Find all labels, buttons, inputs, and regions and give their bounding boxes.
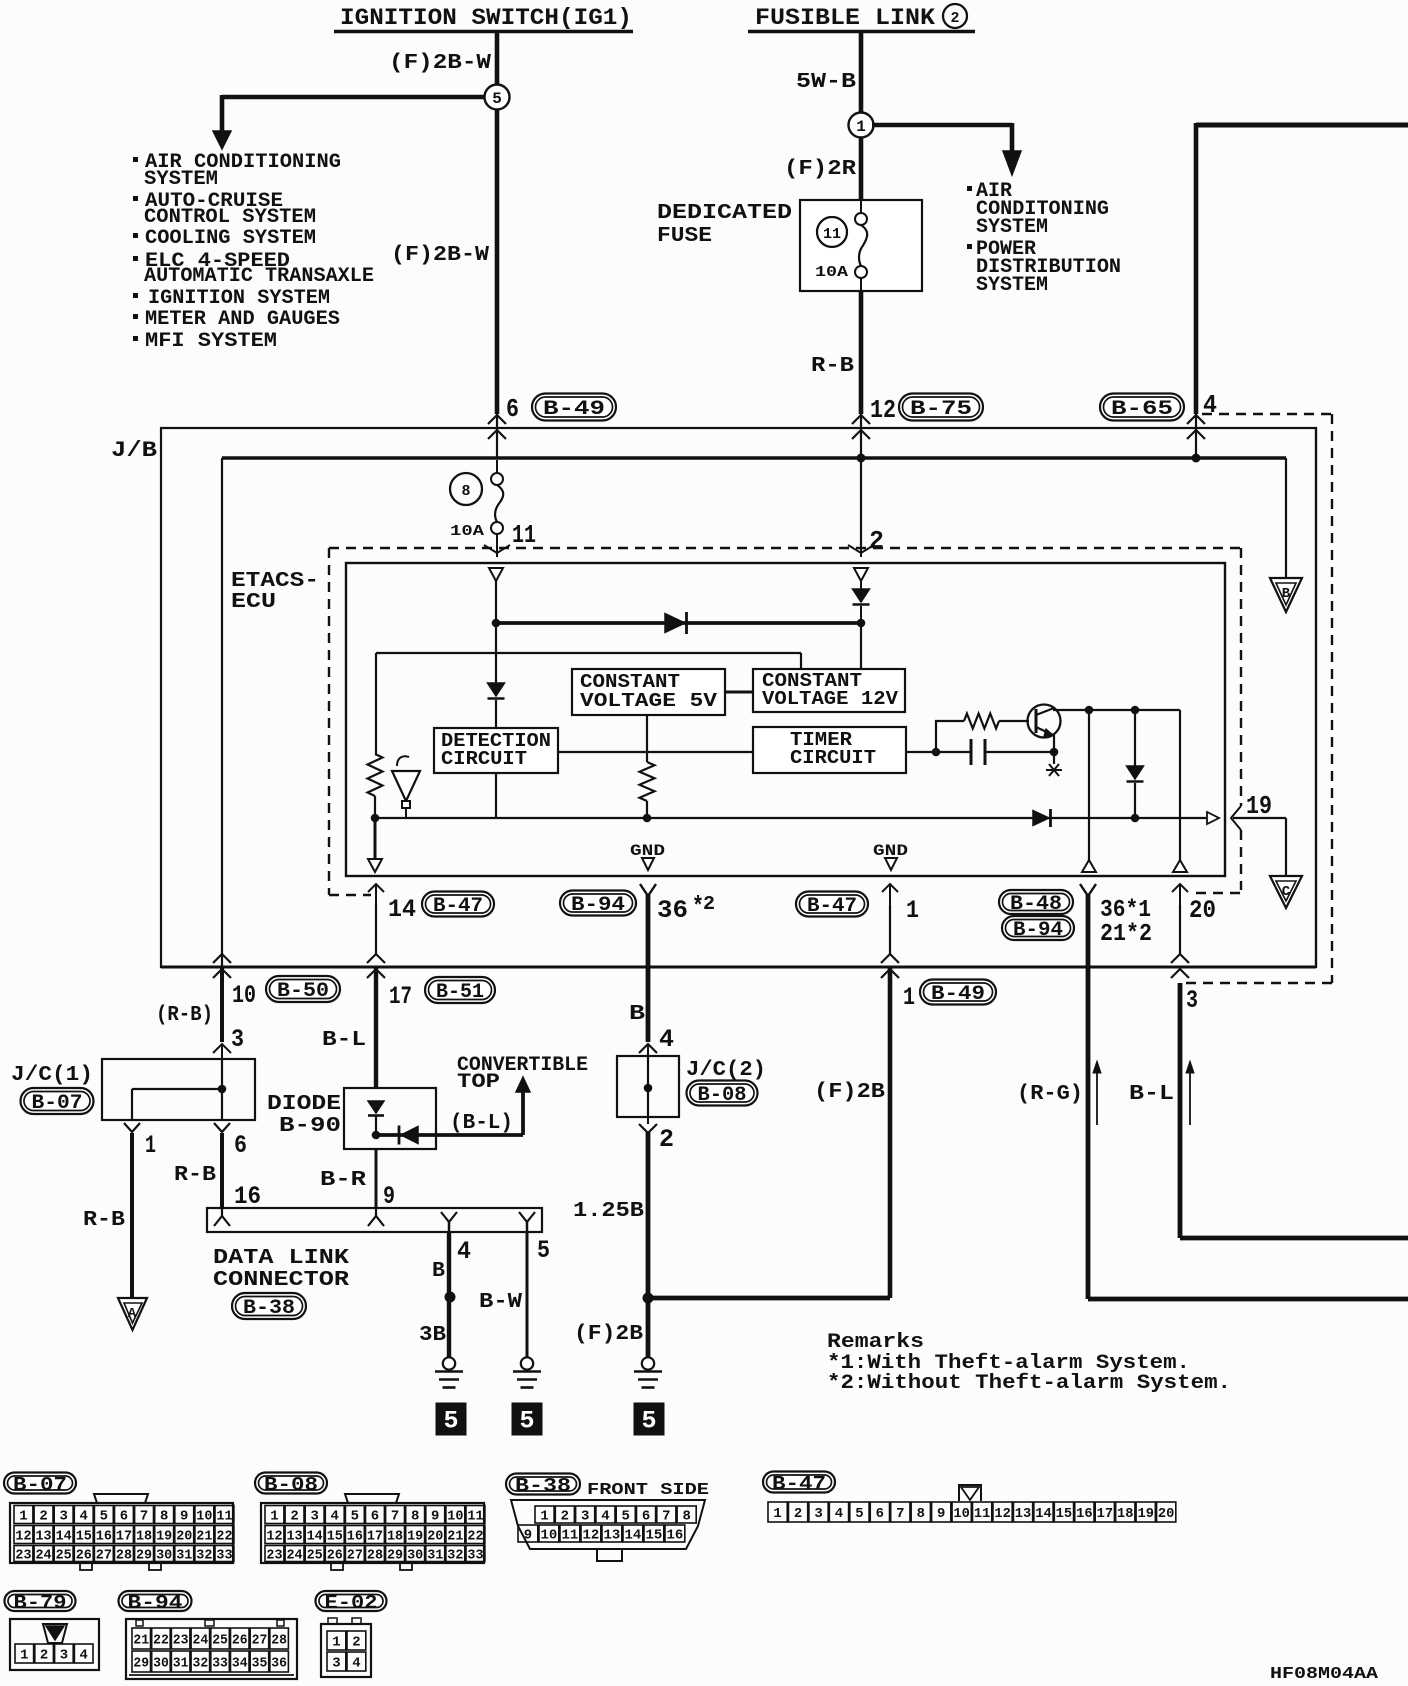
svg-text:2: 2 xyxy=(950,10,959,27)
wire jc2 entry xyxy=(639,1044,657,1053)
svg-text:25: 25 xyxy=(56,1548,72,1563)
svg-text:23: 23 xyxy=(15,1548,31,1563)
internal ground bus wire xyxy=(375,817,1218,819)
junction dot n4 xyxy=(643,814,652,823)
svg-text:J/B: J/B xyxy=(111,438,157,463)
svg-text:19: 19 xyxy=(1138,1507,1154,1522)
svg-text:13: 13 xyxy=(604,1528,621,1543)
diode D2 rightward xyxy=(665,614,685,633)
junction dot bus-4 xyxy=(1192,454,1201,463)
passthrough pin12 into J/B xyxy=(860,414,862,458)
bubble B-51 xyxy=(425,977,495,1003)
svg-text:21: 21 xyxy=(447,1529,463,1544)
svg-text:27: 27 xyxy=(96,1548,112,1563)
bubble B-48 xyxy=(999,890,1073,914)
svg-text:13: 13 xyxy=(287,1529,303,1544)
svg-text:14: 14 xyxy=(56,1529,72,1544)
svg-text:B-47: B-47 xyxy=(807,895,857,918)
svg-text:B-48: B-48 xyxy=(1010,893,1062,916)
bubble B-47 pin14 xyxy=(422,892,494,917)
svg-text:36: 36 xyxy=(657,896,688,925)
svg-text:2: 2 xyxy=(40,1648,48,1663)
CONSTANT VOLTAGE 12V box xyxy=(753,669,905,712)
pin 1 jc1 wire xyxy=(124,1123,140,1132)
J/C(1) box xyxy=(102,1059,255,1120)
svg-text:5: 5 xyxy=(537,1236,550,1265)
svg-text:20: 20 xyxy=(1158,1507,1174,1522)
svg-text:7: 7 xyxy=(896,1507,904,1522)
transistor Q1 xyxy=(1028,705,1061,738)
svg-text:B-90: B-90 xyxy=(279,1115,341,1138)
svg-text:B-49: B-49 xyxy=(931,983,985,1006)
svg-text:DATA LINK: DATA LINK xyxy=(213,1247,349,1270)
svg-text:(F)2R: (F)2R xyxy=(784,158,856,181)
svg-text:36: 36 xyxy=(271,1656,287,1671)
svg-text:24: 24 xyxy=(193,1633,209,1648)
svg-text:17: 17 xyxy=(1097,1507,1113,1522)
svg-text:10: 10 xyxy=(447,1509,463,1524)
svg-text:11: 11 xyxy=(512,520,536,550)
wire dlc4 to ground xyxy=(447,1232,451,1357)
svg-text:B-75: B-75 xyxy=(910,398,972,421)
svg-text:18: 18 xyxy=(387,1529,403,1544)
DLC pin16 entry xyxy=(221,1208,223,1216)
svg-text:B-94: B-94 xyxy=(571,894,625,917)
svg-text:1: 1 xyxy=(145,1131,156,1160)
svg-text:32: 32 xyxy=(196,1548,212,1563)
connector B-08 pinout xyxy=(255,1473,327,1494)
svg-text:36*1: 36*1 xyxy=(1100,897,1151,924)
wire to base resistor xyxy=(936,721,964,752)
junction dot n6 xyxy=(932,748,941,757)
svg-text:CONTROL SYSTEM: CONTROL SYSTEM xyxy=(144,206,316,229)
wire right feed horizontal xyxy=(1196,123,1408,128)
svg-text:(B-L): (B-L) xyxy=(450,1112,513,1135)
svg-text:30: 30 xyxy=(156,1548,172,1563)
svg-text:8: 8 xyxy=(682,1509,690,1524)
svg-text:31: 31 xyxy=(176,1548,192,1563)
svg-text:29: 29 xyxy=(136,1548,152,1563)
diode D4 xyxy=(1134,710,1136,766)
bubble B-07 label xyxy=(21,1088,94,1114)
svg-text:3: 3 xyxy=(231,1025,244,1054)
svg-text:5: 5 xyxy=(351,1509,359,1524)
input triangle pin2 xyxy=(854,568,868,581)
resistor R2 xyxy=(640,762,655,801)
svg-text:10A: 10A xyxy=(815,264,848,281)
svg-text:33: 33 xyxy=(467,1548,483,1563)
junction dot n3 xyxy=(371,814,380,823)
svg-text:E-02: E-02 xyxy=(325,1592,378,1614)
wire jc2 exit xyxy=(639,1124,657,1133)
resistor R1 xyxy=(368,754,383,796)
pin 20 wire xyxy=(1179,884,1181,906)
svg-text:TOP: TOP xyxy=(457,1071,500,1094)
wire n1-n2 with diode xyxy=(496,621,861,625)
pin 17 wire xyxy=(374,967,378,1088)
svg-text:R-B: R-B xyxy=(811,355,854,378)
svg-text:16: 16 xyxy=(96,1529,112,1544)
svg-text:R-B: R-B xyxy=(174,1164,216,1187)
emitter wire xyxy=(1053,735,1055,752)
svg-text:22: 22 xyxy=(216,1529,232,1544)
svg-text:CIRCUIT: CIRCUIT xyxy=(441,748,527,770)
direction arrow R-G xyxy=(1096,1070,1098,1125)
junction dot jc1 xyxy=(218,1085,227,1094)
ECU internal box xyxy=(346,563,1225,876)
svg-text:B-49: B-49 xyxy=(543,398,605,421)
svg-text:(R-B): (R-B) xyxy=(156,1004,213,1027)
wire timer right xyxy=(906,751,936,753)
svg-text:22: 22 xyxy=(467,1529,483,1544)
svg-text:4: 4 xyxy=(80,1509,88,1524)
fuse 8 in J/B xyxy=(496,460,498,473)
svg-text:2: 2 xyxy=(39,1509,47,1524)
svg-text:14: 14 xyxy=(625,1528,642,1543)
junction dot n9 xyxy=(1131,706,1140,715)
svg-text:35: 35 xyxy=(252,1656,268,1671)
link 5V-12V xyxy=(725,691,753,694)
svg-text:B-50: B-50 xyxy=(277,980,329,1003)
svg-text:VOLTAGE 12V: VOLTAGE 12V xyxy=(762,688,898,710)
pin 1 wire xyxy=(889,884,891,906)
svg-text:5: 5 xyxy=(855,1507,863,1522)
svg-text:6: 6 xyxy=(120,1509,128,1524)
svg-text:B-94: B-94 xyxy=(128,1592,183,1614)
triangle C xyxy=(1270,876,1302,908)
bubble B-50 xyxy=(266,976,340,1002)
svg-text:B-R: B-R xyxy=(320,1169,366,1192)
J/B right edge xyxy=(1315,428,1317,967)
svg-text:27: 27 xyxy=(347,1548,363,1563)
TIMER CIRCUIT box xyxy=(753,727,906,773)
pin 14 wire xyxy=(375,884,377,906)
svg-text:26: 26 xyxy=(76,1548,92,1563)
diode D5 down xyxy=(368,1101,384,1113)
direction arrow B-L xyxy=(1189,1070,1191,1125)
svg-text:3: 3 xyxy=(60,1648,68,1663)
wire right feed vertical xyxy=(1194,123,1199,414)
svg-text:9: 9 xyxy=(383,1182,395,1211)
svg-text:21*2: 21*2 xyxy=(1100,921,1152,948)
svg-text:25: 25 xyxy=(307,1548,323,1563)
joint 1 xyxy=(849,113,874,138)
ground ref 5 box2 xyxy=(512,1403,543,1436)
svg-text:VOLTAGE 5V: VOLTAGE 5V xyxy=(580,690,717,712)
svg-text:SYSTEM: SYSTEM xyxy=(144,168,218,191)
svg-text:16: 16 xyxy=(347,1529,363,1544)
svg-text:7: 7 xyxy=(391,1509,399,1524)
svg-text:DIODE: DIODE xyxy=(267,1093,341,1116)
ground ref 5 box3 xyxy=(634,1403,665,1436)
connector B-94 pinout xyxy=(119,1591,192,1611)
svg-text:AUTOMATIC TRANSAXLE: AUTOMATIC TRANSAXLE xyxy=(144,265,374,288)
svg-text:B-W: B-W xyxy=(479,1291,522,1314)
svg-text:23: 23 xyxy=(173,1633,189,1648)
ground g3 xyxy=(642,1357,654,1369)
svg-text:29: 29 xyxy=(133,1656,149,1671)
input triangle pin11 xyxy=(489,568,503,581)
svg-text:1: 1 xyxy=(332,1635,340,1650)
wire to pin20 output xyxy=(1179,710,1181,860)
svg-text:12: 12 xyxy=(15,1529,31,1544)
passthrough pin4 into J/B xyxy=(1195,414,1197,458)
junction dot jc2g xyxy=(643,1293,654,1304)
svg-text:2: 2 xyxy=(659,1125,674,1154)
svg-text:DEDICATED: DEDICATED xyxy=(657,202,792,225)
AC / power distribution list xyxy=(967,186,972,191)
svg-text:10: 10 xyxy=(232,981,256,1010)
output triangle pin20 xyxy=(1173,860,1187,872)
svg-text:11: 11 xyxy=(974,1507,990,1522)
svg-text:19: 19 xyxy=(156,1529,172,1544)
svg-text:29: 29 xyxy=(387,1548,403,1563)
connector B-47 pinout xyxy=(763,1472,835,1493)
wire IG1 feed vertical xyxy=(495,33,500,414)
svg-text:12: 12 xyxy=(266,1529,282,1544)
svg-text:6: 6 xyxy=(371,1509,379,1524)
wire b-l branch xyxy=(376,1133,523,1137)
svg-text:CONNECTOR: CONNECTOR xyxy=(213,1269,349,1292)
connector B-79 pinout xyxy=(5,1591,76,1611)
CONSTANT VOLTAGE 5V box xyxy=(572,669,725,715)
svg-text:33: 33 xyxy=(212,1656,228,1671)
DLC pin5 exit xyxy=(519,1212,535,1222)
svg-text:4: 4 xyxy=(80,1648,88,1663)
ground g1 xyxy=(443,1357,455,1369)
svg-text:J/C(2): J/C(2) xyxy=(686,1059,766,1082)
junction dot bus-12 xyxy=(857,454,866,463)
svg-text:4: 4 xyxy=(352,1656,360,1671)
svg-text:C: C xyxy=(1282,884,1291,900)
svg-text:12: 12 xyxy=(870,395,896,425)
svg-text:20: 20 xyxy=(427,1529,443,1544)
svg-text:SYSTEM: SYSTEM xyxy=(976,274,1048,297)
svg-text:9: 9 xyxy=(180,1509,188,1524)
wire 1 B-49 lower xyxy=(648,1296,890,1301)
svg-text:10: 10 xyxy=(953,1507,969,1522)
svg-text:B-38: B-38 xyxy=(243,1297,295,1320)
DLC pin4 exit xyxy=(441,1212,457,1222)
svg-text:1: 1 xyxy=(856,118,866,136)
ground ref 5 box1 xyxy=(436,1403,467,1436)
svg-text:11: 11 xyxy=(562,1528,579,1543)
joint 5 xyxy=(485,85,510,110)
svg-text:B-L: B-L xyxy=(1129,1083,1174,1106)
svg-text:12: 12 xyxy=(994,1507,1010,1522)
bubble B-49 lower xyxy=(920,980,996,1005)
junction dot n5 xyxy=(1131,814,1140,823)
svg-text:13: 13 xyxy=(1015,1507,1031,1522)
svg-text:17: 17 xyxy=(367,1529,383,1544)
svg-text:METER AND GAUGES: METER AND GAUGES xyxy=(145,308,340,331)
svg-text:B-08: B-08 xyxy=(264,1474,318,1496)
svg-text:17: 17 xyxy=(116,1529,132,1544)
svg-text:A: A xyxy=(128,1306,137,1322)
connector bubble B-49 top xyxy=(532,394,616,421)
svg-text:31: 31 xyxy=(173,1656,189,1671)
ETACS-ECU dashed boundary xyxy=(329,547,1241,549)
svg-text:3: 3 xyxy=(332,1656,340,1671)
J/B outer box xyxy=(161,428,1316,967)
svg-text:8: 8 xyxy=(411,1509,419,1524)
connector bubble B-65 xyxy=(1100,394,1184,421)
system list xyxy=(133,157,138,162)
svg-text:1: 1 xyxy=(906,896,919,925)
arrowhead to AC list xyxy=(1003,151,1021,175)
svg-text:IGNITION SYSTEM: IGNITION SYSTEM xyxy=(148,287,330,310)
svg-text:3: 3 xyxy=(581,1509,589,1524)
open arrow to pin19 xyxy=(1207,812,1219,824)
svg-text:33: 33 xyxy=(216,1548,232,1563)
svg-text:FRONT SIDE: FRONT SIDE xyxy=(587,1480,709,1499)
svg-text:COOLING SYSTEM: COOLING SYSTEM xyxy=(145,227,316,250)
svg-text:5: 5 xyxy=(443,1407,458,1436)
svg-text:B-38: B-38 xyxy=(515,1475,571,1497)
svg-text:B: B xyxy=(629,1003,645,1026)
svg-text:22: 22 xyxy=(153,1633,169,1648)
svg-text:MFI SYSTEM: MFI SYSTEM xyxy=(145,330,277,353)
wire 9 to DLC xyxy=(375,1149,378,1208)
svg-text:9: 9 xyxy=(431,1509,439,1524)
svg-text:ECU: ECU xyxy=(231,591,276,614)
svg-text:19: 19 xyxy=(407,1529,423,1544)
diode D7 on ground rail xyxy=(1033,811,1049,826)
junction dot d90 xyxy=(372,1131,381,1140)
svg-text:2: 2 xyxy=(561,1509,569,1524)
svg-text:30: 30 xyxy=(407,1548,423,1563)
svg-text:B-47: B-47 xyxy=(433,895,483,918)
svg-text:ETACS-: ETACS- xyxy=(231,570,319,593)
svg-text:1.25B: 1.25B xyxy=(573,1200,644,1223)
svg-text:*2:Without Theft-alarm System.: *2:Without Theft-alarm System. xyxy=(827,1372,1231,1395)
svg-text:18: 18 xyxy=(1117,1507,1133,1522)
svg-text:11: 11 xyxy=(467,1509,483,1524)
svg-text:16: 16 xyxy=(1076,1507,1092,1522)
svg-text:24: 24 xyxy=(36,1548,52,1563)
svg-text:(F)2B-W: (F)2B-W xyxy=(389,52,491,75)
svg-text:(F)2B: (F)2B xyxy=(814,1081,885,1104)
notch pin19 xyxy=(1231,806,1241,830)
svg-text:5W-B: 5W-B xyxy=(796,71,856,94)
diode D1 on pin2 input xyxy=(860,581,862,589)
svg-text:4: 4 xyxy=(659,1025,674,1054)
svg-text:21: 21 xyxy=(133,1633,149,1648)
svg-text:5: 5 xyxy=(622,1509,630,1524)
svg-text:26: 26 xyxy=(327,1548,343,1563)
svg-text:8: 8 xyxy=(160,1509,168,1524)
junction dot n2 xyxy=(857,619,866,628)
svg-text:15: 15 xyxy=(327,1529,343,1544)
J/B bottom bus xyxy=(161,966,1316,969)
wire fusible link vertical xyxy=(859,33,864,414)
svg-text:B-47: B-47 xyxy=(772,1473,826,1495)
bubble B-94 right xyxy=(1002,916,1074,940)
pin 10 wire xyxy=(213,954,231,963)
triangle A xyxy=(118,1298,147,1330)
svg-text:32: 32 xyxy=(193,1656,209,1671)
svg-text:10: 10 xyxy=(196,1509,212,1524)
svg-text:14: 14 xyxy=(1035,1507,1051,1522)
inverter/comparator symbol xyxy=(392,771,420,801)
svg-text:B: B xyxy=(432,1260,445,1283)
internal ground star xyxy=(1053,752,1055,764)
svg-text:9: 9 xyxy=(937,1507,945,1522)
svg-text:6: 6 xyxy=(876,1507,884,1522)
svg-text:20: 20 xyxy=(176,1529,192,1544)
J/C(2) box xyxy=(617,1056,679,1117)
wire detection-timer xyxy=(558,751,753,753)
svg-text:(F)2B: (F)2B xyxy=(574,1323,643,1346)
svg-text:FUSIBLE LINK: FUSIBLE LINK xyxy=(755,5,935,31)
wire pin19 to C xyxy=(1233,817,1286,819)
svg-text:FUSE: FUSE xyxy=(657,225,712,248)
pin 36*1 wire xyxy=(1080,884,1096,896)
svg-text:B-51: B-51 xyxy=(436,981,484,1004)
svg-text:26: 26 xyxy=(232,1633,248,1648)
svg-text:7: 7 xyxy=(140,1509,148,1524)
svg-text:14: 14 xyxy=(388,895,416,924)
svg-text:2: 2 xyxy=(290,1509,298,1524)
output triangle pin14 xyxy=(374,818,377,859)
bubble B-94 pin36 xyxy=(560,891,636,916)
diode D6 left xyxy=(401,1127,418,1144)
connector B-07 pinout xyxy=(4,1473,76,1494)
svg-text:4: 4 xyxy=(457,1237,471,1266)
outer dashed connector box xyxy=(1202,413,1332,415)
svg-text:3B: 3B xyxy=(419,1324,446,1347)
svg-text:20: 20 xyxy=(1189,896,1216,925)
arrowhead to system list xyxy=(213,131,231,149)
svg-text:34: 34 xyxy=(232,1656,248,1671)
svg-text:3: 3 xyxy=(814,1507,822,1522)
svg-text:21: 21 xyxy=(196,1529,212,1544)
wire pin11 down xyxy=(495,581,497,623)
svg-text:R-B: R-B xyxy=(83,1209,125,1232)
svg-text:11: 11 xyxy=(823,226,841,243)
svg-text:SYSTEM: SYSTEM xyxy=(976,216,1048,239)
DETECTION CIRCUIT box xyxy=(434,728,558,773)
svg-text:5: 5 xyxy=(492,90,502,108)
svg-text:4: 4 xyxy=(835,1507,843,1522)
svg-text:6: 6 xyxy=(506,394,519,424)
pin 6 jc1 wire xyxy=(214,1123,230,1132)
wire 36*1 below to right xyxy=(1088,1297,1408,1302)
svg-text:23: 23 xyxy=(266,1548,282,1563)
J/B inner bus line xyxy=(222,456,1286,460)
wire pin2 into ECU xyxy=(860,458,862,546)
svg-text:16: 16 xyxy=(234,1182,261,1211)
svg-text:2: 2 xyxy=(869,526,884,556)
svg-text:B-08: B-08 xyxy=(698,1084,747,1107)
wire branch to AC/power-dist xyxy=(872,123,1012,128)
svg-text:5: 5 xyxy=(641,1407,656,1436)
svg-text:J/C(1): J/C(1) xyxy=(11,1064,93,1087)
svg-text:B-79: B-79 xyxy=(14,1592,67,1614)
dedicated fuse 11 box xyxy=(800,200,922,291)
svg-text:B-07: B-07 xyxy=(13,1474,67,1496)
svg-text:5: 5 xyxy=(100,1509,108,1524)
svg-text:1: 1 xyxy=(270,1509,278,1524)
svg-text:15: 15 xyxy=(646,1528,663,1543)
svg-text:B: B xyxy=(1282,586,1291,602)
connector bubble B-75 xyxy=(899,394,983,421)
ground g2 xyxy=(521,1357,533,1369)
svg-text:18: 18 xyxy=(136,1529,152,1544)
svg-text:15: 15 xyxy=(76,1529,92,1544)
wire 20 below to right xyxy=(1178,983,1183,1238)
triangle B xyxy=(1270,578,1302,612)
